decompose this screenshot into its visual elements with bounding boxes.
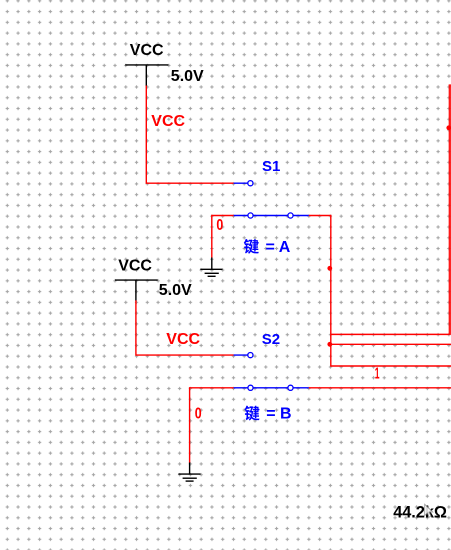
svg-text:5.0V: 5.0V: [159, 282, 192, 299]
svg-text:VCC: VCC: [166, 331, 200, 348]
wire VCC2 to S2 pin 1: [136, 300, 234, 355]
mouse cursor over k: [425, 504, 433, 517]
wire branch at y=344: [330, 343, 451, 345]
label 键 = B (key = B): [244, 406, 291, 423]
ground symbol (below S1): [200, 258, 222, 277]
wire S2 output to right edge: [309, 387, 451, 389]
wire branch to right edge rail: [331, 86, 451, 335]
junction on right edge rail: [446, 125, 451, 130]
svg-text:S2: S2: [262, 331, 280, 348]
power symbol VCC2 (bottom): [115, 280, 158, 301]
svg-text:1: 1: [375, 365, 380, 382]
svg-text:VCC: VCC: [151, 113, 185, 130]
switch S2: [234, 353, 309, 391]
svg-text:S1: S1: [262, 158, 280, 175]
junction at branch y=344: [327, 342, 332, 347]
wire S1 output to lower-right (net 1): [309, 216, 451, 367]
svg-text:5.0V: 5.0V: [171, 68, 204, 85]
switch S1: [234, 181, 309, 219]
junction on S1 output vertical: [327, 266, 332, 271]
ground symbol (below S2): [178, 463, 200, 482]
label 键 = A (key = A): [244, 239, 291, 256]
power symbol VCC1 (top): [125, 65, 168, 86]
wire S2 pole to ground (net 0): [190, 388, 234, 463]
wire VCC1 to S1 pin 1: [146, 86, 233, 184]
svg-text:= A: = A: [266, 239, 291, 256]
wire S1 pole to ground (net 0): [212, 216, 234, 258]
svg-text:VCC: VCC: [118, 258, 152, 275]
svg-text:= B: = B: [266, 406, 291, 423]
svg-text:0: 0: [216, 217, 223, 234]
svg-text:44.2kΩ: 44.2kΩ: [393, 504, 447, 522]
svg-text:VCC: VCC: [130, 42, 164, 59]
svg-text:0: 0: [195, 405, 202, 422]
